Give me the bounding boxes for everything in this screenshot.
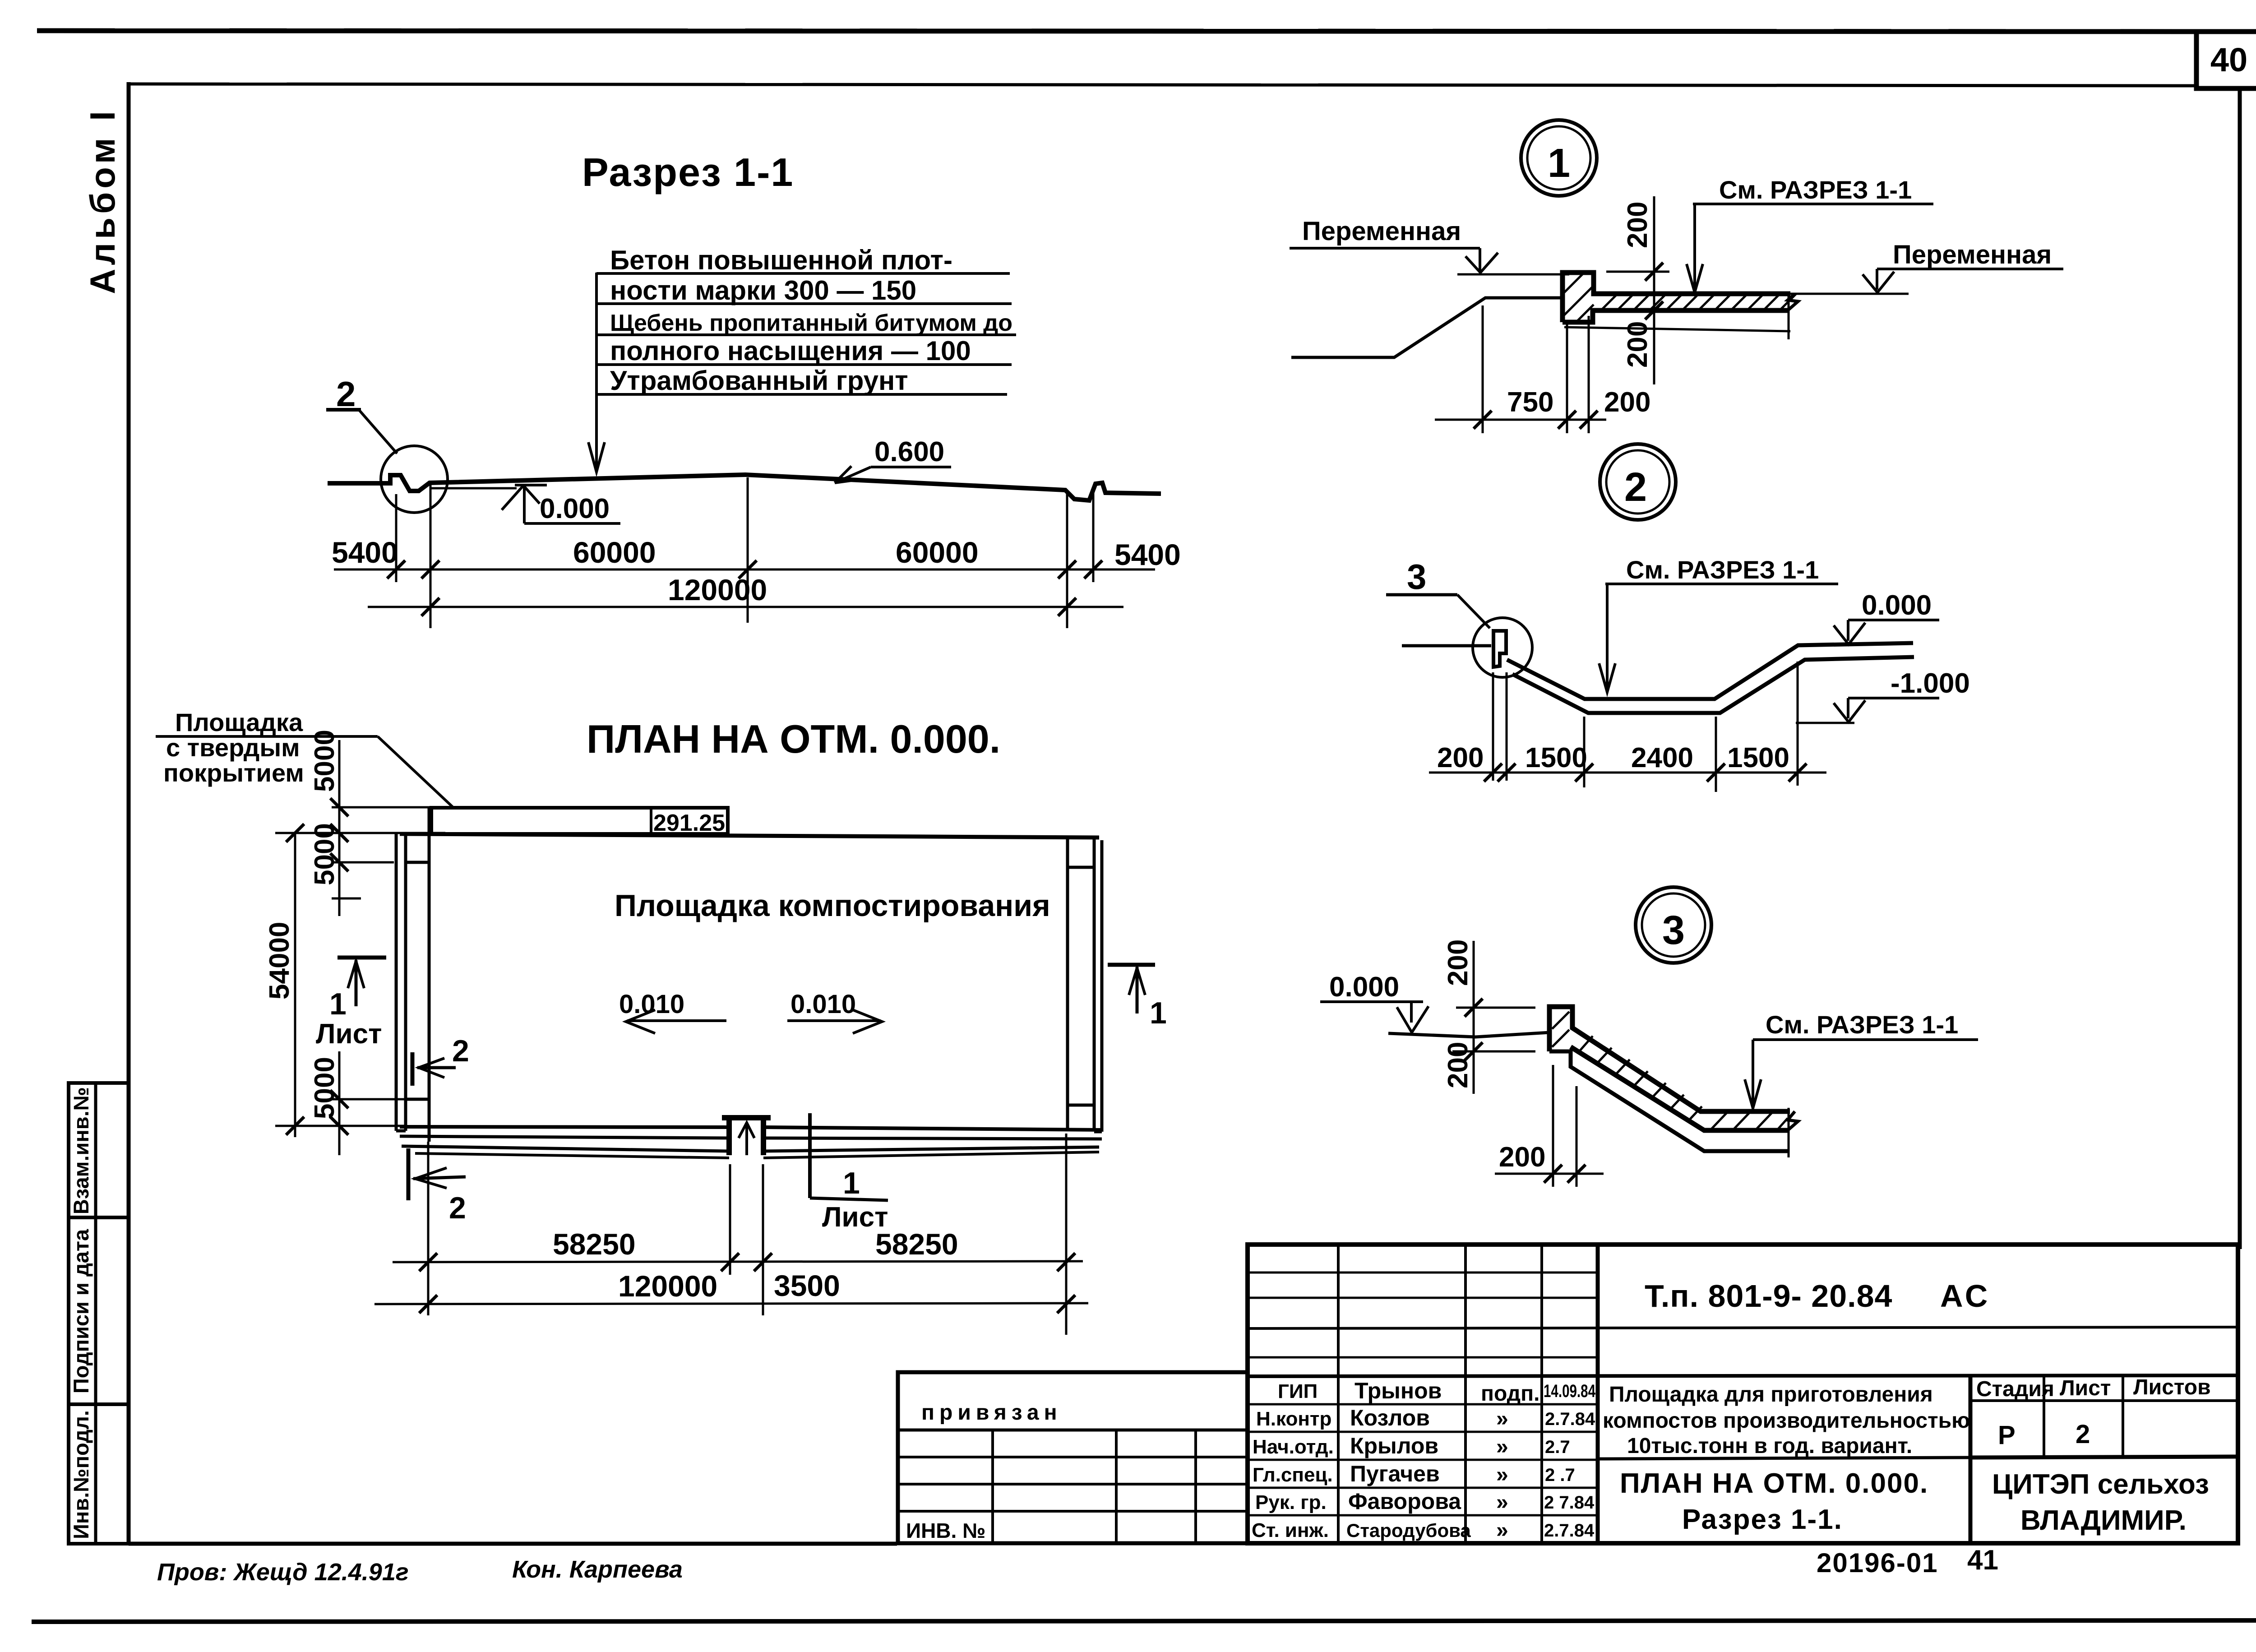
plan dimension line 120000: [374, 1269, 1088, 1313]
svg-text:Инв.№подл.: Инв.№подл.: [69, 1410, 93, 1539]
right peremennaya label (detail 1): [1863, 240, 2063, 292]
see section 1-1 callout (detail 1): [1687, 176, 1933, 292]
svg-text:0.000: 0.000: [540, 493, 610, 524]
svg-text:Листов: Листов: [2133, 1375, 2211, 1399]
svg-text:58250: 58250: [875, 1227, 958, 1261]
description divider: [1598, 1458, 1970, 1459]
svg-text:1: 1: [1150, 996, 1167, 1030]
plan top bar 291.25: [431, 808, 728, 836]
elevation -1.000 (detail 2): [1796, 668, 1970, 723]
svg-text:ПЛАН НА ОТМ. 0.000.: ПЛАН НА ОТМ. 0.000.: [1620, 1468, 1928, 1499]
svg-text:Фаворова: Фаворова: [1348, 1489, 1461, 1514]
svg-text:750: 750: [1507, 387, 1553, 418]
svg-text:привязан: привязан: [921, 1401, 1062, 1425]
name entries: [1346, 1378, 1471, 1541]
svg-text:1: 1: [1548, 141, 1570, 186]
svg-text:Подписи и дата: Подписи и дата: [69, 1229, 93, 1393]
svg-text:200: 200: [1442, 1042, 1474, 1088]
plan dimension line 58250/3500/58250: [393, 1227, 1083, 1302]
plan bottom trough lines: [400, 1127, 1102, 1158]
detail circle 2 on section: [326, 374, 448, 513]
title block upper row lines: [1248, 1273, 2238, 1376]
detail circle label 3: [1636, 887, 1711, 963]
svg-text:54000: 54000: [264, 922, 295, 1000]
plan main rectangle: [396, 808, 1102, 1142]
svg-text:Утрамбованный грунт: Утрамбованный грунт: [610, 366, 908, 396]
svg-text:подп.: подп.: [1481, 1382, 1539, 1406]
svg-text:2: 2: [2076, 1420, 2090, 1449]
svg-text:2: 2: [449, 1191, 466, 1225]
svg-text:См. РАЗРЕЗ 1-1: См. РАЗРЕЗ 1-1: [1766, 1010, 1958, 1039]
svg-text:2.7.84: 2.7.84: [1545, 1409, 1595, 1429]
page number box 40: [2196, 32, 2256, 88]
svg-text:Разрез 1-1.: Разрез 1-1.: [1682, 1504, 1843, 1535]
ditch profile (detail 2): [1507, 643, 1914, 713]
svg-text:2: 2: [1624, 465, 1647, 510]
svg-text:Лист: Лист: [2060, 1376, 2111, 1400]
svg-text:Щебень пропитанный битумом до: Щебень пропитанный битумом до: [610, 310, 1012, 336]
svg-text:Ст. инж.: Ст. инж.: [1252, 1519, 1329, 1541]
svg-text:ности марки 300 — 150: ности марки 300 — 150: [610, 275, 916, 305]
dimension line 200/1500/2400/1500 (detail 2): [1429, 662, 1826, 792]
svg-text:58250: 58250: [553, 1227, 636, 1261]
vertical 200 dims (detail 3): [1442, 939, 1535, 1094]
svg-text:Н.контр: Н.контр: [1256, 1408, 1331, 1430]
svg-text:»: »: [1496, 1435, 1508, 1459]
see section 1-1 callout (detail 2): [1599, 555, 1838, 692]
plan bottom dimension extensions: [428, 1134, 1066, 1335]
svg-text:»: »: [1496, 1407, 1508, 1431]
svg-text:291.25: 291.25: [653, 810, 725, 836]
signature column: [1481, 1382, 1539, 1542]
svg-text:200: 200: [1604, 387, 1650, 418]
sheet title: [1620, 1468, 1928, 1535]
svg-text:1500: 1500: [1727, 742, 1789, 773]
svg-text:2: 2: [336, 374, 356, 414]
svg-text:3: 3: [1407, 557, 1426, 597]
slope arrows 0.010: [619, 990, 882, 1033]
svg-text:См. РАЗРЕЗ 1-1: См. РАЗРЕЗ 1-1: [1719, 176, 1912, 204]
svg-text:Переменная: Переменная: [1302, 217, 1461, 246]
svg-text:ВЛАДИМИР.: ВЛАДИМИР.: [2020, 1505, 2187, 1536]
svg-text:2: 2: [452, 1034, 469, 1068]
54000 dimension: [264, 824, 304, 1137]
album label: [83, 107, 122, 294]
detail circle label 2: [1600, 444, 1676, 520]
svg-text:41: 41: [1967, 1545, 1998, 1576]
organization: [1992, 1469, 2209, 1536]
svg-text:10тыс.тонн в год. вариант.: 10тыс.тонн в год. вариант.: [1627, 1434, 1912, 1458]
vertical 200 dimension (detail 1): [1606, 196, 1669, 384]
subbase line (detail 1): [1564, 294, 1909, 339]
document number bottom: [1817, 1545, 1998, 1578]
plan title: [587, 717, 1000, 761]
bottom dimensions 750/200 (detail 1): [1435, 305, 1650, 433]
note leader arrow to ground: [588, 273, 605, 472]
svg-text:Разрез 1-1: Разрез 1-1: [582, 150, 794, 194]
right end tick (detail 3): [1788, 1108, 1790, 1157]
svg-text:60000: 60000: [573, 536, 656, 569]
svg-text:Переменная: Переменная: [1893, 240, 2052, 269]
section ground line: [328, 475, 1161, 500]
svg-text:120000: 120000: [668, 573, 767, 606]
slab end mark (detail 3): [1788, 1111, 1798, 1130]
svg-text:5000: 5000: [309, 730, 340, 792]
svg-text:0.600: 0.600: [874, 436, 944, 467]
curb block (detail 3): [1549, 1007, 1790, 1151]
svg-text:Стародубова: Стародубова: [1346, 1520, 1471, 1541]
svg-text:Гл.спец.: Гл.спец.: [1253, 1464, 1333, 1486]
elevation 0.000 (detail 3): [1320, 972, 1428, 1032]
elevation 0.000 (detail 2): [1834, 590, 1939, 644]
ground profile left of curb (detail 1): [1291, 298, 1563, 357]
bottom 200 dimension (detail 3): [1495, 1065, 1604, 1187]
svg-text:ГИП: ГИП: [1278, 1380, 1318, 1402]
svg-text:ПЛАН НА ОТМ. 0.000.: ПЛАН НА ОТМ. 0.000.: [587, 717, 1000, 761]
svg-text:60000: 60000: [896, 536, 979, 569]
material note text block: [610, 245, 1012, 396]
svg-text:1: 1: [329, 987, 347, 1021]
svg-text:Лист: Лист: [316, 1018, 382, 1050]
detail circle label 1: [1521, 120, 1597, 196]
svg-text:Площадка компостирования: Площадка компостирования: [615, 888, 1050, 923]
svg-text:2 7.84: 2 7.84: [1544, 1493, 1595, 1513]
section title Razrez 1-1: [582, 150, 794, 194]
svg-text:3500: 3500: [774, 1269, 840, 1302]
svg-text:Крылов: Крылов: [1350, 1433, 1438, 1458]
svg-text:Бетон повышенной плот-: Бетон повышенной плот-: [610, 245, 952, 275]
svg-text:ИНВ. №: ИНВ. №: [906, 1519, 985, 1542]
section mark 1 bottom (1 List): [810, 1113, 888, 1233]
section mark 2 upper left: [412, 1034, 469, 1086]
svg-text:покрытием: покрытием: [163, 759, 304, 787]
plan left dimension chain: [275, 730, 445, 916]
svg-text:Р: Р: [1998, 1421, 2016, 1450]
svg-text:5000: 5000: [309, 823, 340, 885]
project code: [1645, 1278, 1990, 1314]
svg-text:200: 200: [1437, 742, 1484, 773]
section mark 1 left (1 List): [316, 958, 386, 1050]
top rule line: [37, 31, 2198, 32]
svg-text:14.09.84: 14.09.84: [1544, 1381, 1596, 1401]
svg-text:1500: 1500: [1525, 742, 1587, 773]
arrow from note to pavement 0.600: [835, 436, 951, 483]
title block name rows: [1248, 1404, 1598, 1515]
svg-text:АС: АС: [1940, 1278, 1990, 1314]
hard surface leader note: [156, 708, 453, 807]
elevation mark 0.000 on section: [502, 485, 620, 524]
svg-text:Нач.отд.: Нач.отд.: [1253, 1436, 1334, 1458]
svg-text:Т.п. 801-9- 20.84: Т.п. 801-9- 20.84: [1645, 1278, 1892, 1314]
svg-text:См. РАЗРЕЗ 1-1: См. РАЗРЕЗ 1-1: [1626, 555, 1819, 584]
svg-text:компостов производительностью: компостов производительностью: [1603, 1409, 1970, 1433]
svg-text:Взам.инв.№: Взам.инв.№: [69, 1087, 93, 1214]
plan interior label: [615, 888, 1050, 923]
left peremennaya label (detail 1): [1290, 217, 1569, 274]
svg-text:»: »: [1496, 1518, 1508, 1542]
svg-text:Рук. гр.: Рук. гр.: [1255, 1491, 1327, 1513]
svg-text:5000: 5000: [309, 1057, 340, 1119]
svg-text:1: 1: [843, 1166, 860, 1200]
label 3 leader (detail 2): [1386, 557, 1490, 628]
svg-text:полного насыщения — 100: полного насыщения — 100: [610, 336, 971, 366]
role labels: [1252, 1380, 1334, 1541]
bottom scan edge line: [32, 1620, 2256, 1622]
curb hatching (detail 1): [1563, 274, 1796, 321]
svg-text:120000: 120000: [618, 1269, 717, 1303]
svg-text:5400: 5400: [1114, 538, 1181, 571]
svg-text:ЦИТЭП сельхоз: ЦИТЭП сельхоз: [1992, 1469, 2209, 1500]
svg-text:20196-01: 20196-01: [1817, 1548, 1938, 1578]
svg-text:2.7.84: 2.7.84: [1544, 1521, 1595, 1541]
svg-text:2 .7: 2 .7: [1545, 1465, 1575, 1485]
plan bottom-left 5000 dimension: [275, 1051, 406, 1155]
svg-text:200: 200: [1622, 202, 1653, 248]
ground line (detail 3): [1388, 1032, 1549, 1037]
title block columns left part: [1338, 1245, 1598, 1543]
svg-text:Пугачев: Пугачев: [1350, 1461, 1440, 1486]
svg-text:Площадка: Площадка: [175, 708, 303, 736]
section dimension line 120000: [368, 573, 1123, 616]
date column: [1544, 1381, 1596, 1541]
section mark 1 right side: [1108, 965, 1167, 1030]
section dimension extension lines: [396, 477, 1093, 628]
svg-text:Стадия: Стадия: [1976, 1377, 2054, 1401]
svg-text:Пров: Жещд 12.4.91г: Пров: Жещд 12.4.91г: [157, 1559, 409, 1586]
svg-text:40: 40: [2210, 41, 2247, 79]
svg-text:0.010: 0.010: [619, 990, 684, 1019]
svg-text:»: »: [1496, 1490, 1508, 1514]
left stamp boxes: [69, 1083, 129, 1544]
note underlines callout: [596, 273, 1016, 394]
slab end mark (detail 1): [1788, 294, 1798, 310]
svg-text:-1.000: -1.000: [1891, 668, 1970, 699]
svg-text:200: 200: [1622, 321, 1653, 368]
privyazan table: [898, 1372, 1248, 1543]
section mark 2 lower left: [408, 1148, 466, 1225]
curb block (detail 1): [1563, 273, 1790, 322]
svg-text:200: 200: [1442, 939, 1474, 986]
svg-text:2400: 2400: [1631, 742, 1693, 773]
svg-text:0.010: 0.010: [791, 990, 856, 1019]
svg-text:Трынов: Трынов: [1355, 1378, 1442, 1403]
left ground line (detail 2): [1402, 644, 1491, 648]
svg-text:3: 3: [1662, 908, 1685, 953]
small detail circle with curb (detail 2): [1473, 618, 1532, 677]
svg-text:2.7: 2.7: [1545, 1437, 1570, 1457]
section dimension line 5400/60000/60000/5400: [332, 536, 1181, 578]
stage/list columns: [1970, 1375, 2238, 1543]
svg-text:Альбом I: Альбом I: [83, 107, 122, 294]
svg-text:Козлов: Козлов: [1350, 1405, 1430, 1430]
svg-text:»: »: [1496, 1463, 1508, 1487]
svg-text:0.000: 0.000: [1862, 590, 1932, 621]
svg-text:200: 200: [1499, 1142, 1545, 1173]
svg-text:Кон. Карпеева: Кон. Карпеева: [512, 1556, 683, 1583]
see section 1-1 callout (detail 3): [1745, 1010, 1978, 1108]
title block outer frame: [1248, 1245, 2238, 1543]
svg-text:5400: 5400: [332, 536, 398, 569]
handwritten notes bottom: [157, 1556, 683, 1586]
svg-text:Площадка для приготовления: Площадка для приготовления: [1609, 1383, 1933, 1407]
central pit: [722, 1118, 771, 1155]
svg-text:0.000: 0.000: [1329, 972, 1399, 1003]
project description: [1603, 1383, 1970, 1458]
slab hatching (detail 3): [1552, 1012, 1788, 1130]
